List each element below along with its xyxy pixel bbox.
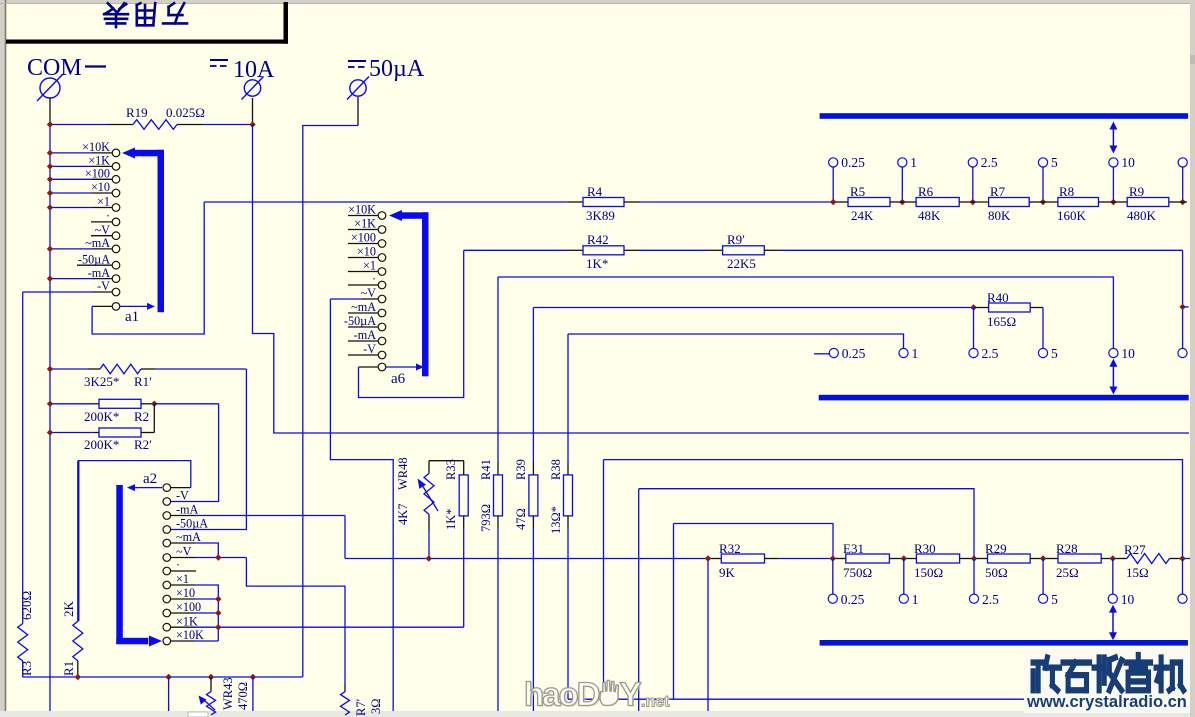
- switch a2 contact -50&#181;A: [163, 526, 171, 534]
- svg-text:~V: ~V: [95, 223, 111, 237]
- resistor R7 80K: [973, 201, 989, 203]
- svg-text:×10K: ×10K: [82, 140, 110, 154]
- switch a2 contact &#215;1K: [163, 623, 171, 631]
- svg-text:-mA: -mA: [354, 328, 377, 342]
- wire bus stub down 2: [252, 677, 254, 711]
- switch a1 contact -50&#181;A: [77, 264, 112, 266]
- svg-text:165Ω: 165Ω: [987, 314, 1016, 329]
- wire row2 0.25 stub: [814, 353, 829, 355]
- wire R38 net staircase y334: [568, 334, 904, 349]
- svg-text:10: 10: [1121, 592, 1135, 607]
- svg-text:×1K: ×1K: [176, 614, 198, 628]
- svg-text:×100: ×100: [351, 231, 376, 245]
- switch a1 contact ~V: [91, 235, 112, 237]
- resistor R28 25ohm: [1043, 558, 1058, 560]
- resistor R19 0.025ohm: [50, 124, 107, 126]
- svg-text:5: 5: [1051, 155, 1058, 170]
- svg-text:×10: ×10: [357, 245, 376, 259]
- double arrow middle: [1112, 361, 1114, 391]
- svg-text:R29: R29: [985, 541, 1007, 556]
- svg-text:10: 10: [1121, 346, 1135, 361]
- switch a2 contact &#215;1: [163, 581, 171, 589]
- svg-text:R28: R28: [1056, 541, 1078, 556]
- logo text 矿石收音机: [1024, 649, 1190, 713]
- resistor R39 47ohm: [532, 308, 534, 463]
- svg-text:COM: COM: [27, 55, 82, 81]
- wire R2-R2' link: [153, 404, 155, 433]
- svg-text:200K*: 200K*: [84, 437, 119, 452]
- resistor R9' 22K5: [708, 249, 723, 251]
- resistor R29 50ohm: [974, 558, 988, 560]
- svg-text:R1′: R1′: [134, 374, 152, 389]
- svg-text:~V: ~V: [361, 286, 377, 300]
- svg-text:R30: R30: [914, 541, 936, 556]
- svg-text:2K: 2K: [61, 601, 76, 618]
- wire a2 ~V to R7' branch: [171, 557, 195, 559]
- svg-text:R9: R9: [1129, 184, 1144, 199]
- junction 10A-R19: [249, 121, 255, 127]
- svg-text:R2′: R2′: [134, 437, 152, 452]
- wire bottom chain net: [345, 558, 708, 560]
- svg-text:0.25: 0.25: [841, 155, 865, 170]
- svg-text:3Ω: 3Ω: [369, 698, 383, 714]
- svg-text:~V: ~V: [176, 545, 192, 559]
- svg-text:48K: 48K: [918, 208, 941, 223]
- svg-text:-50µA: -50µA: [78, 252, 110, 266]
- resistor R9 480K: [1113, 201, 1127, 203]
- svg-text:-mA: -mA: [176, 503, 199, 517]
- potentiometer WR48 4K7: [429, 460, 464, 462]
- wire a2 dot contact stub: [171, 570, 196, 572]
- right window edge: [1190, 0, 1195, 717]
- switch a6 contact ~V: [330, 298, 362, 300]
- meter bar bottom: [820, 640, 1188, 646]
- svg-text:R5: R5: [850, 184, 865, 199]
- svg-text:750Ω: 750Ω: [843, 565, 872, 580]
- svg-text:0.25: 0.25: [841, 592, 865, 607]
- switch a1 contact &#215;10: [50, 192, 92, 194]
- switch a1 contact -V: [23, 291, 92, 293]
- svg-text:0.025Ω: 0.025Ω: [166, 105, 205, 120]
- svg-text:200K*: 200K*: [84, 409, 119, 424]
- svg-text:×1: ×1: [176, 572, 189, 586]
- wire a6 common to R42: [359, 250, 464, 397]
- svg-text:R7′: R7′: [354, 698, 368, 716]
- resistor R2' 200K: [50, 432, 94, 434]
- svg-text:R3: R3: [19, 661, 34, 676]
- svg-text:-50µA: -50µA: [344, 314, 376, 328]
- wire bottom bus: [23, 676, 303, 678]
- svg-text:1: 1: [910, 155, 917, 170]
- svg-text:R33: R33: [444, 459, 458, 480]
- svg-text:1: 1: [912, 592, 919, 607]
- logo url www.crystalradio.cn: [1027, 693, 1189, 712]
- svg-text:793Ω: 793Ω: [479, 504, 493, 532]
- switch a2 wiper arm: [134, 487, 162, 489]
- wire R2 to a2 -V contact: [154, 403, 218, 405]
- svg-text:2.5: 2.5: [982, 346, 999, 361]
- wire long line y460 to R27 node: [603, 460, 605, 700]
- switch a6 contact ~mA: [348, 312, 378, 314]
- potentiometer WR43 470ohm: [210, 677, 212, 692]
- svg-text:WR48: WR48: [396, 457, 410, 490]
- svg-text:R6: R6: [918, 184, 934, 199]
- svg-text:R38: R38: [549, 459, 563, 480]
- switch a6 contact &#215;10: [348, 257, 378, 259]
- svg-text:R39: R39: [514, 459, 528, 480]
- svg-text:25Ω: 25Ω: [1056, 565, 1079, 580]
- terminal row 3 (bottom right): [832, 559, 834, 595]
- svg-text:1K*: 1K*: [444, 508, 458, 530]
- svg-text:-V: -V: [97, 279, 110, 293]
- svg-text:×10: ×10: [176, 586, 195, 600]
- switch a6 contact &#215;10K: [348, 215, 378, 217]
- wire R9' net to right terminal: [1182, 250, 1184, 348]
- bottom scrollbar strip: [0, 711, 1195, 717]
- wire R41 net staircase y277: [498, 277, 1113, 349]
- switch a6 contact &#215;1K: [348, 229, 378, 231]
- wire a1 common to R4 line: [92, 202, 204, 334]
- terminal COM: [40, 78, 60, 98]
- resistor R7' bottom: [344, 684, 346, 692]
- resistor R32 9K: [708, 558, 721, 560]
- svg-text:80K: 80K: [988, 208, 1011, 223]
- svg-text:haoD: haoD: [524, 676, 600, 713]
- wire bottom horizontal y699: [568, 698, 1186, 700]
- svg-text:9K: 9K: [719, 565, 736, 580]
- wire long line y489 to R29 node: [638, 489, 640, 711]
- svg-text:R7: R7: [990, 184, 1006, 199]
- svg-text:480K: 480K: [1127, 208, 1157, 223]
- switch a2 contact &#215;100: [163, 609, 171, 617]
- double arrow top: [1112, 124, 1114, 150]
- svg-text:1K*: 1K*: [586, 256, 608, 271]
- wire COM bus vertical: [49, 125, 51, 712]
- switch a6 contact -50&#181;A: [348, 326, 378, 328]
- label 10A with DC symbol: [210, 59, 228, 61]
- junction dots bottom chain: [426, 555, 432, 561]
- switch a1 contact &#215;1: [50, 207, 92, 209]
- svg-text:×1K: ×1K: [354, 217, 376, 231]
- resistor R5 24K: [848, 198, 890, 207]
- resistor R6 48K: [902, 201, 916, 203]
- svg-text:a6: a6: [391, 371, 406, 387]
- switch a2 contact -mA: [163, 512, 171, 520]
- wire 10A down and jog to long line y433: [253, 125, 1190, 434]
- svg-text:2.5: 2.5: [981, 155, 998, 170]
- switch a2 contact &#215;10K: [163, 637, 171, 645]
- svg-text:15Ω: 15Ω: [1126, 565, 1149, 580]
- resistor R27 15ohm: [1113, 558, 1127, 560]
- junction a2 ladder dots: [215, 596, 221, 602]
- svg-text:R40: R40: [987, 290, 1009, 305]
- switch a6 common contact: [378, 363, 386, 371]
- svg-text:R1: R1: [61, 661, 76, 676]
- resistor R3 620ohm: [22, 292, 24, 624]
- switch a1 contact &#215;1K: [50, 165, 92, 167]
- svg-text:4K7: 4K7: [396, 503, 410, 525]
- svg-text:·: ·: [106, 209, 110, 223]
- watermark haoDIY.net: [524, 676, 670, 715]
- wire R32 node down: [707, 559, 709, 712]
- switch a1 contact -mA: [50, 278, 92, 280]
- label 50uA with DC symbol: [348, 60, 366, 62]
- svg-text:R19: R19: [126, 105, 148, 120]
- wire a2 ~mA to ~V node: [171, 542, 195, 544]
- resistor R30 150ohm: [904, 558, 917, 560]
- svg-text:22K5: 22K5: [727, 256, 756, 271]
- switch a6 contact &#183;: [348, 284, 378, 286]
- svg-text:13Ω*: 13Ω*: [549, 506, 563, 534]
- switch a6 contact -mA: [348, 340, 378, 342]
- svg-text:a1: a1: [125, 309, 139, 325]
- resistor R1 2K: [77, 461, 79, 622]
- svg-text:5: 5: [1051, 592, 1058, 607]
- wire COM terminal to R19 node: [49, 98, 51, 125]
- svg-text:R2: R2: [134, 409, 149, 424]
- terminal row 2 (middle right): [829, 348, 838, 357]
- meter bar top: [820, 113, 1189, 119]
- wire a2 x1 ladder: [171, 584, 195, 586]
- chain R5-R9: [833, 201, 848, 203]
- switch a2 common contact: [163, 484, 171, 492]
- svg-text:-V: -V: [363, 342, 376, 356]
- switch a6 wiper arm: [386, 366, 416, 368]
- wire bridge y523 to E31 node: [673, 524, 675, 700]
- switch a2 contact &#183;: [163, 567, 171, 575]
- resistor R33 1K*: [463, 461, 465, 475]
- switch a1 common contact: [112, 303, 120, 311]
- svg-text:~mA: ~mA: [85, 236, 110, 250]
- svg-text:R32: R32: [719, 541, 741, 556]
- svg-text:a2: a2: [143, 471, 157, 487]
- svg-text:47Ω: 47Ω: [514, 508, 528, 530]
- resistor R4 3K89: [204, 201, 567, 203]
- svg-text:470Ω: 470Ω: [236, 682, 250, 710]
- terminal row 1 (top right): [832, 167, 834, 202]
- double arrow bottom: [1112, 607, 1114, 637]
- svg-text:×1: ×1: [97, 195, 110, 209]
- svg-text:R27: R27: [1124, 542, 1146, 557]
- svg-text:1: 1: [912, 346, 919, 361]
- svg-text:50µA: 50µA: [369, 56, 425, 82]
- wire 10A terminal down: [252, 98, 254, 125]
- svg-text:R8: R8: [1059, 184, 1074, 199]
- resistor E31 750ohm: [833, 558, 846, 560]
- svg-text:×10: ×10: [91, 180, 110, 194]
- wire R39 net staircase y307: [533, 307, 973, 309]
- svg-text:~mA: ~mA: [351, 300, 376, 314]
- svg-text:×100: ×100: [85, 167, 110, 181]
- wire a2 x10K row: [171, 640, 195, 642]
- svg-text:-50µA: -50µA: [176, 517, 208, 531]
- wire 50uA terminal down: [357, 97, 359, 126]
- title text 万用表 rotated: [104, 3, 187, 27]
- svg-text:.net: .net: [641, 694, 670, 711]
- resistor R41 793ohm: [497, 277, 499, 462]
- svg-text:24K: 24K: [851, 208, 874, 223]
- terminal 50uA: [350, 80, 366, 96]
- junction COM-R19: [47, 121, 53, 127]
- meter bar middle: [819, 395, 1189, 401]
- svg-text:·: ·: [372, 272, 376, 286]
- resistor R8 160K: [1043, 201, 1058, 203]
- svg-text:5: 5: [1051, 346, 1058, 361]
- switch a6 contact -V: [348, 354, 378, 356]
- wire a6 ~V down to bottom: [330, 299, 393, 711]
- switch a2 contact -V: [163, 498, 171, 506]
- svg-text:10: 10: [1121, 155, 1135, 170]
- svg-text:·: ·: [176, 558, 180, 572]
- switch a1 wiper arm: [120, 305, 148, 307]
- svg-text:-V: -V: [176, 489, 189, 503]
- switch a1 contact &#183;: [91, 221, 112, 223]
- svg-text:R4: R4: [587, 184, 603, 199]
- resistor R38 13ohm*: [567, 334, 569, 462]
- switch a6 contact &#215;100: [348, 243, 378, 245]
- wire a2 x1K row long line to R33: [171, 626, 195, 628]
- svg-text:-mA: -mA: [88, 266, 111, 280]
- svg-text:3K89: 3K89: [586, 208, 615, 223]
- svg-text:620Ω: 620Ω: [19, 591, 34, 620]
- switch a2 contact &#215;10: [163, 595, 171, 603]
- svg-text:R41: R41: [479, 459, 493, 480]
- resistor R42 1K*: [464, 249, 568, 251]
- switch a2 contact ~V: [163, 554, 171, 562]
- svg-text:50Ω: 50Ω: [985, 565, 1008, 580]
- switch a1 contact &#215;10K: [50, 152, 92, 154]
- svg-text:3K25*: 3K25*: [84, 374, 119, 389]
- wire a2 -mA to bottom chain: [171, 515, 195, 517]
- svg-text:R9′: R9′: [727, 232, 745, 247]
- resistor R2 200K: [50, 403, 94, 405]
- svg-text:WR43: WR43: [221, 677, 235, 710]
- svg-text:×1: ×1: [363, 259, 376, 273]
- svg-text:Y: Y: [620, 676, 642, 713]
- svg-text:0.25: 0.25: [842, 346, 866, 361]
- wire R40 left terminal drop: [973, 308, 975, 349]
- resistor R40 165ohm: [970, 304, 976, 310]
- switch a6 contact &#215;1: [348, 271, 378, 273]
- resistor R1' 3K25: [50, 368, 88, 370]
- wire bus stub down 1: [168, 677, 170, 711]
- wire R1' to a2 -50uA contact: [171, 369, 246, 530]
- svg-text:×10K: ×10K: [348, 203, 376, 217]
- svg-text:160K: 160K: [1057, 208, 1087, 223]
- svg-text:~mA: ~mA: [176, 530, 201, 544]
- wire 50uA to left and long down: [303, 126, 358, 677]
- svg-text:150Ω: 150Ω: [914, 565, 943, 580]
- svg-text:×100: ×100: [176, 600, 201, 614]
- svg-text:×10K: ×10K: [176, 628, 204, 642]
- switch a2 frame wire: [171, 487, 191, 489]
- switch a1 contact ~mA: [50, 248, 92, 250]
- svg-text:10A: 10A: [233, 57, 275, 83]
- svg-text:E31: E31: [843, 541, 864, 556]
- svg-text:R42: R42: [587, 232, 609, 247]
- title box frame: [6, 40, 288, 44]
- switch a2 contact ~mA: [163, 539, 171, 547]
- terminal 10A: [244, 80, 260, 96]
- svg-text:×1K: ×1K: [88, 154, 110, 168]
- svg-text:2.5: 2.5: [982, 592, 999, 607]
- switch a1 contact &#215;100: [50, 178, 92, 180]
